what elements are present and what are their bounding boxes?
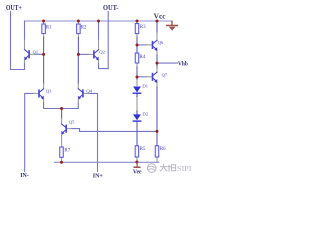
pin Q2 emitter [98, 59, 100, 62]
svg-text:OUT+: OUT+ [6, 4, 22, 12]
transistor Q5 [62, 124, 67, 133]
wire Q2 collector vertical [98, 21, 100, 40]
wire tail to Q5 collector [61, 109, 63, 119]
pin Q2 collector [98, 40, 100, 50]
transistor Q4 [78, 89, 83, 98]
svg-text:IN-: IN- [20, 173, 29, 179]
pin D1 cathode to D2 anode [136, 97, 138, 112]
pin D1 anode [136, 79, 138, 86]
junction dot node B [77, 53, 80, 56]
pin Q7 base [147, 76, 153, 78]
transistor Q7 [153, 72, 158, 81]
transistor Q1 [25, 50, 30, 59]
pin Q7 emitter [156, 81, 158, 87]
junction dot node A [42, 53, 45, 56]
junction dot R1 rail [42, 20, 45, 23]
lead D1 bottom stub [136, 94, 138, 97]
wire Q6 base [137, 44, 147, 46]
svg-text:R2: R2 [81, 26, 87, 31]
pin R1 bottom [43, 34, 45, 38]
svg-text:R7: R7 [64, 149, 70, 154]
wire node B to Q4 collector [77, 54, 79, 83]
svg-text:R5: R5 [140, 147, 146, 152]
pin R2 bottom [77, 34, 79, 38]
svg-text:Q7: Q7 [162, 72, 168, 77]
pin R1 top [43, 21, 45, 24]
resistor R7 [60, 147, 64, 157]
svg-text:Vhb: Vhb [178, 61, 188, 67]
wire Q6 emitter to Vhb node [156, 55, 158, 63]
svg-text:IN+: IN+ [93, 173, 104, 179]
wire Q1 base [35, 53, 44, 55]
wire Q3 base to IN- [25, 93, 34, 171]
transistor Q3 [39, 89, 44, 98]
diode D2 [133, 114, 141, 120]
wire OUT- vertical [107, 12, 109, 69]
pin Q3 base [34, 92, 40, 94]
resistor R1 [42, 24, 46, 34]
junction dot bias node [156, 130, 159, 133]
lead D2 top stub [136, 111, 138, 114]
pin R3 top [136, 21, 138, 24]
svg-text:Q2: Q2 [99, 50, 105, 55]
watermark text [160, 164, 175, 171]
wire bottom rail Vee [55, 161, 159, 163]
svg-text:D2: D2 [142, 112, 148, 117]
svg-text:R6: R6 [160, 147, 166, 152]
pin Q1 emitter [24, 59, 26, 62]
pin Q3 collector [43, 84, 45, 89]
svg-text:Q6: Q6 [158, 40, 164, 45]
wire Q1 collector vertical [24, 21, 26, 40]
junction dot Vhb node [156, 62, 159, 65]
transistor Q6 [153, 40, 158, 49]
wire Q7 emitter to bias node [156, 87, 158, 131]
wire Q7 base [137, 76, 147, 78]
junction dot node D [136, 76, 139, 79]
junction dot R3 rail [136, 20, 139, 23]
svg-text:Vee: Vee [133, 169, 142, 175]
wire node C to R4 [136, 45, 138, 53]
pin R6 bottom [156, 157, 158, 162]
resistor R5 [135, 146, 139, 157]
resistor R2 [77, 24, 81, 34]
pin R2 top [77, 21, 79, 24]
pin Q2 base [89, 53, 94, 55]
svg-text:Q5: Q5 [69, 120, 75, 125]
power symbol Vee [134, 162, 140, 167]
wire Q2 emitter loop [99, 63, 109, 69]
junction dot R2 rail [77, 20, 80, 23]
resistor R4 [135, 53, 139, 63]
pin Q1 base [29, 53, 35, 55]
wire R4 to node D [136, 67, 138, 77]
pin Q7 collector [156, 68, 158, 72]
svg-text:R1: R1 [46, 26, 52, 31]
junction dot R7 rail [60, 161, 63, 164]
wire top rail Vcc [25, 20, 173, 22]
pin R5 bottom [136, 157, 138, 162]
wire Q2 base [78, 53, 89, 55]
svg-text:Q3: Q3 [46, 88, 52, 93]
junction dot R5 rail [135, 161, 138, 164]
wire node D to D1 [136, 77, 138, 79]
pin Q5 base [66, 128, 72, 130]
svg-text:D1: D1 [142, 84, 148, 89]
wire OUT+ loop [11, 12, 25, 70]
transistor Q2 [94, 50, 99, 59]
wire Q4 base to IN+ [89, 93, 98, 171]
pin Q6 base [147, 44, 153, 46]
power symbol Vcc [167, 22, 177, 26]
pin Q5 emitter to R7 [61, 133, 63, 147]
wire node A to Q3 collector [43, 54, 45, 83]
svg-text:OUT-: OUT- [103, 4, 119, 12]
svg-text:Vcc: Vcc [154, 13, 166, 21]
pin R7 bottom [61, 157, 63, 162]
svg-text:R3: R3 [140, 25, 146, 30]
wire Vcc to Q6 collector [156, 21, 158, 33]
pin R4 bottom [136, 63, 138, 67]
pin R3 bottom [136, 34, 138, 37]
pin Q6 collector [156, 33, 158, 40]
watermark logo circle [147, 164, 156, 173]
wire Q5 base to bias line [72, 129, 157, 132]
resistor R3 [135, 24, 139, 34]
pin Q5 collector [61, 119, 63, 125]
resistor R6 [155, 146, 159, 157]
junction dot Vcc rail [156, 20, 159, 23]
pin Q3 emitter [43, 98, 45, 103]
svg-text:Q4: Q4 [86, 88, 92, 93]
pin Q4 base [83, 92, 89, 94]
pin Q4 emitter [77, 98, 79, 103]
wire R3 to node C [136, 37, 138, 45]
diode D1 [133, 87, 141, 93]
junction dot Q2 collector rail [97, 20, 100, 23]
pin Q1 collector [24, 40, 26, 50]
wire R2 to node B [77, 38, 79, 55]
wire bias node to R6 [156, 131, 158, 145]
wire D2 to R5 [136, 122, 138, 146]
junction dot tail node [60, 107, 63, 110]
wire Vhb label [157, 62, 178, 64]
wire Vhb node to Q7 collector [156, 63, 158, 68]
wire tail node [44, 103, 79, 109]
pin Q4 collector [77, 84, 79, 89]
pin Q6 emitter [156, 49, 158, 55]
wire R1 to node A [43, 38, 45, 55]
svg-text:R4: R4 [139, 55, 145, 60]
junction dot node C [136, 44, 139, 47]
svg-text:SIPI: SIPI [177, 165, 192, 173]
svg-text:Q1: Q1 [33, 49, 39, 54]
